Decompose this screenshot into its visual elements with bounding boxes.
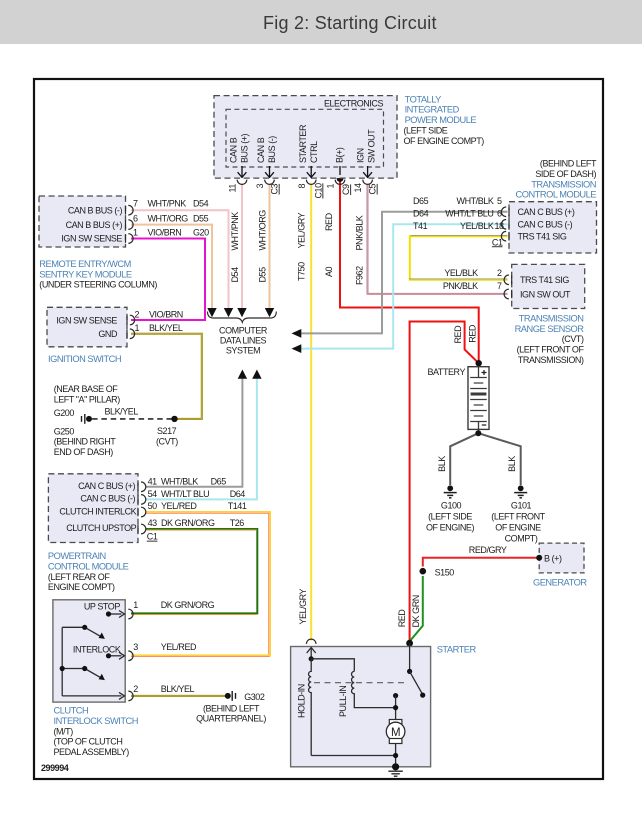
svg-text:D64: D64 bbox=[230, 489, 246, 499]
header bar bbox=[0, 0, 642, 44]
svg-text:CLUTCH INTERLCK: CLUTCH INTERLCK bbox=[59, 507, 136, 517]
svg-text:SENTRY KEY MODULE: SENTRY KEY MODULE bbox=[39, 269, 132, 279]
svg-text:YEL/BLK: YEL/BLK bbox=[460, 221, 494, 231]
svg-text:(LEFT FRONT: (LEFT FRONT bbox=[491, 512, 545, 522]
svg-text:3: 3 bbox=[255, 184, 265, 189]
svg-text:POWERTRAIN: POWERTRAIN bbox=[48, 551, 106, 561]
svg-text:CONTROL MODULE: CONTROL MODULE bbox=[516, 190, 597, 200]
starter motor box bbox=[291, 647, 431, 767]
svg-text:CAN C BUS (-): CAN C BUS (-) bbox=[80, 494, 135, 504]
svg-text:COMPT): COMPT) bbox=[505, 534, 538, 544]
svg-text:VIO/BRN: VIO/BRN bbox=[149, 309, 183, 319]
starter switch lever end dot bbox=[420, 693, 425, 698]
svg-text:(CVT): (CVT) bbox=[156, 436, 178, 446]
node battery negative dot bbox=[475, 430, 481, 436]
svg-text:T750: T750 bbox=[297, 262, 307, 281]
wire WHT/LT BLU D64 from TCM pin 6 to data lines arrow bbox=[301, 224, 508, 348]
svg-text:ELECTRONICS: ELECTRONICS bbox=[324, 98, 384, 108]
svg-text:CONTROL MODULE: CONTROL MODULE bbox=[48, 561, 129, 571]
node generator B(+) terminal dot bbox=[536, 555, 542, 561]
svg-text:OF ENGINE COMPT): OF ENGINE COMPT) bbox=[404, 136, 485, 146]
wire BLK/YEL dashed run from S217 to ground G200 bbox=[91, 418, 172, 420]
svg-text:WHT/PNK: WHT/PNK bbox=[148, 199, 187, 209]
starter switch lever bbox=[410, 671, 422, 693]
clutch switch contact dots bbox=[106, 611, 111, 616]
svg-text:IGN: IGN bbox=[356, 148, 366, 163]
svg-text:G20: G20 bbox=[193, 227, 209, 237]
wire RED from battery positive to starter junction bbox=[410, 322, 479, 641]
svg-text:RED: RED bbox=[397, 609, 407, 628]
clutch switch pin exit arrows bbox=[119, 611, 125, 700]
arrow down WHT/PNK into data lines bbox=[224, 308, 233, 317]
svg-text:WHT/LT BLU: WHT/LT BLU bbox=[445, 209, 493, 219]
wire starter internal top run bbox=[311, 659, 354, 672]
svg-text:C5: C5 bbox=[368, 183, 378, 194]
ground G200 symbol bbox=[82, 414, 85, 424]
svg-text:2: 2 bbox=[135, 309, 140, 319]
svg-text:BLK/YEL: BLK/YEL bbox=[161, 684, 195, 694]
wire BLK/YEL from clutch interlock switch pin 2 to ground G302 bbox=[131, 695, 226, 697]
svg-text:YEL/GRY: YEL/GRY bbox=[297, 212, 307, 248]
svg-text:G101: G101 bbox=[511, 501, 532, 511]
wire contact to motor bbox=[395, 696, 397, 720]
TIPM inner electronics box bbox=[226, 109, 384, 167]
svg-text:COMPUTER: COMPUTER bbox=[219, 326, 268, 336]
svg-text:IGNITION SWITCH: IGNITION SWITCH bbox=[48, 354, 121, 364]
svg-text:GENERATOR: GENERATOR bbox=[533, 577, 587, 587]
wire DK GRN/ORG T26 from PCM pin 43 to clutch interlock switch pin 1 bbox=[131, 529, 257, 613]
ignition switch pin connectors bbox=[127, 315, 135, 338]
wire WHT/BLK D65 from TCM pin 5 to data lines arrow bbox=[301, 212, 508, 334]
svg-text:3: 3 bbox=[133, 642, 138, 652]
svg-text:1: 1 bbox=[326, 184, 336, 189]
node battery positive junction dot bbox=[476, 360, 482, 366]
svg-text:TRS T41 SIG: TRS T41 SIG bbox=[520, 275, 569, 285]
node motor bottom junction bbox=[393, 753, 398, 758]
ignition switch box bbox=[47, 307, 127, 347]
svg-text:(LEFT SIDE: (LEFT SIDE bbox=[428, 512, 472, 522]
svg-text:6: 6 bbox=[133, 213, 138, 223]
svg-text:SIDE OF DASH): SIDE OF DASH) bbox=[535, 169, 596, 179]
svg-text:TRS T41 SIG: TRS T41 SIG bbox=[518, 231, 567, 241]
arrow up PCM WHT/LT BLU into data lines bbox=[252, 370, 261, 379]
svg-text:INTEGRATED: INTEGRATED bbox=[405, 105, 460, 115]
svg-text:RED: RED bbox=[453, 325, 463, 344]
wire DK GRN from splice S150 to starter junction bbox=[410, 576, 423, 641]
svg-text:G200: G200 bbox=[54, 408, 75, 418]
svg-text:(BEHIND LEFT: (BEHIND LEFT bbox=[540, 159, 597, 169]
svg-text:UP STOP: UP STOP bbox=[84, 601, 120, 611]
svg-text:2: 2 bbox=[497, 268, 502, 278]
svg-text:(CVT): (CVT) bbox=[562, 334, 584, 344]
motor M brushes and armature bbox=[389, 720, 402, 725]
svg-text:RANGE SENSOR: RANGE SENSOR bbox=[515, 324, 585, 334]
battery plus sign bbox=[482, 370, 487, 375]
svg-text:PNK/BLK: PNK/BLK bbox=[443, 281, 478, 291]
svg-text:CAN B BUS (+): CAN B BUS (+) bbox=[66, 220, 123, 230]
arrow down TIPM WHT/PNK into data lines bbox=[237, 308, 246, 317]
svg-text:T141: T141 bbox=[228, 501, 247, 511]
svg-text:YEL/BLK: YEL/BLK bbox=[444, 268, 478, 278]
wire BLK battery negative to ground G101 bbox=[478, 433, 520, 485]
svg-text:STARTER: STARTER bbox=[437, 645, 477, 655]
remote entry/WCM module box bbox=[39, 196, 126, 247]
svg-text:D55: D55 bbox=[258, 267, 268, 283]
svg-text:BLK: BLK bbox=[507, 456, 517, 472]
svg-text:5: 5 bbox=[497, 196, 502, 206]
wire RED/GRY from splice S150 to generator B(+) bbox=[423, 558, 537, 567]
svg-text:IGN SW SENSE: IGN SW SENSE bbox=[61, 234, 122, 244]
wire BLK battery negative to ground G100 bbox=[450, 433, 478, 485]
svg-text:WHT/BLK: WHT/BLK bbox=[161, 477, 198, 487]
arrow left WHT/LT BLU into data lines bbox=[292, 344, 302, 353]
svg-text:BATTERY: BATTERY bbox=[427, 367, 465, 377]
TCM pin connectors bbox=[501, 207, 509, 241]
svg-text:DK GRN: DK GRN bbox=[411, 595, 421, 627]
svg-text:C3: C3 bbox=[270, 183, 280, 194]
node pull-in to motor junction bbox=[393, 705, 398, 710]
svg-text:(LEFT SIDE: (LEFT SIDE bbox=[404, 126, 448, 136]
svg-text:LEFT "A" PILLAR): LEFT "A" PILLAR) bbox=[54, 394, 121, 404]
svg-text:7: 7 bbox=[497, 281, 502, 291]
svg-text:RED: RED bbox=[324, 212, 334, 231]
svg-text:G100: G100 bbox=[441, 501, 462, 511]
svg-text:(LEFT FRONT OF: (LEFT FRONT OF bbox=[517, 345, 585, 355]
svg-text:YEL/GRY: YEL/GRY bbox=[298, 588, 308, 624]
wire PNK/BLK gray stripe bbox=[367, 184, 508, 293]
svg-text:T41: T41 bbox=[413, 221, 428, 231]
ground G100 symbol bbox=[444, 485, 457, 497]
svg-text:BUS (+): BUS (+) bbox=[240, 133, 250, 163]
transmission range sensor box bbox=[512, 264, 585, 308]
svg-text:OF ENGINE: OF ENGINE bbox=[495, 523, 541, 533]
wire WHT/BLK D65 from PCM pin 41 up to data lines arrow bbox=[146, 379, 243, 487]
ground G302 symbol bbox=[225, 693, 231, 699]
TIPM connector hooks below box bbox=[237, 180, 372, 185]
svg-text:GND: GND bbox=[98, 329, 118, 339]
wire WHT/PNK D54 from TIPM pin 11 down to data-line arrow bbox=[241, 184, 243, 308]
svg-text:1: 1 bbox=[135, 323, 140, 333]
PCM pin connectors bbox=[138, 482, 146, 534]
svg-text:D65: D65 bbox=[211, 477, 227, 487]
svg-text:G250: G250 bbox=[54, 426, 75, 436]
wire PNK/BLK F962 from TIPM pin 14 to transmission range sensor pin 7 bbox=[368, 184, 508, 294]
svg-text:(LEFT REAR OF: (LEFT REAR OF bbox=[48, 572, 110, 582]
svg-text:G302: G302 bbox=[244, 692, 265, 702]
svg-text:QUARTERPANEL): QUARTERPANEL) bbox=[196, 714, 266, 724]
svg-text:DK GRN/ORG: DK GRN/ORG bbox=[161, 518, 215, 528]
svg-text:C1: C1 bbox=[492, 237, 503, 247]
arrow left WHT/BLK into data lines bbox=[292, 329, 302, 338]
svg-text:HOLD-IN: HOLD-IN bbox=[297, 684, 307, 718]
generator box bbox=[539, 543, 584, 573]
wire RED A0 from TIPM pin 1 to battery positive bbox=[340, 181, 479, 361]
svg-text:YEL/RED: YEL/RED bbox=[161, 501, 197, 511]
svg-text:REMOTE ENTRY/WCM: REMOTE ENTRY/WCM bbox=[39, 259, 131, 269]
wire hold-in bottom run bbox=[311, 755, 395, 757]
wire YEL/GRY T750 from TIPM pin 8 down to starter solenoid bbox=[310, 184, 312, 641]
svg-text:S150: S150 bbox=[435, 568, 455, 578]
svg-text:14: 14 bbox=[353, 183, 363, 193]
clutch switch internal circuit bbox=[62, 614, 121, 696]
svg-text:(BEHIND RIGHT: (BEHIND RIGHT bbox=[54, 437, 117, 447]
TCM module box bbox=[509, 202, 597, 253]
wire YEL/RED T141 from PCM pin 50 to clutch interlock switch pin 3 bbox=[131, 512, 270, 655]
starter switch feed line bbox=[409, 643, 411, 671]
remote module pin connectors bbox=[126, 205, 134, 243]
node starter B+ junction bbox=[406, 640, 413, 647]
svg-text:D54: D54 bbox=[230, 267, 240, 283]
node splice S150 bbox=[420, 568, 427, 575]
svg-text:S217: S217 bbox=[157, 426, 177, 436]
svg-text:CLUTCH: CLUTCH bbox=[54, 706, 89, 716]
arrow up PCM WHT/BLK into data lines bbox=[238, 370, 247, 379]
battery minus sign bbox=[482, 424, 487, 426]
svg-text:PULL-IN: PULL-IN bbox=[338, 686, 348, 717]
PCM module box bbox=[48, 474, 138, 543]
wire WHT/LT BLU D64 from PCM pin 54 up to data lines arrow bbox=[146, 379, 257, 500]
svg-text:END OF DASH): END OF DASH) bbox=[54, 447, 114, 457]
svg-text:A0: A0 bbox=[324, 266, 334, 277]
svg-text:WHT/LT BLU: WHT/LT BLU bbox=[161, 489, 209, 499]
starter input connector arc bbox=[306, 639, 316, 644]
hold-in coil bbox=[309, 659, 312, 756]
data lines brace bbox=[208, 312, 277, 323]
svg-text:6: 6 bbox=[497, 209, 502, 219]
pull-in coil bbox=[352, 671, 396, 707]
svg-text:WHT/ORG: WHT/ORG bbox=[148, 213, 189, 223]
svg-text:299994: 299994 bbox=[41, 763, 69, 773]
svg-text:B(+): B(+) bbox=[335, 147, 345, 163]
svg-text:54: 54 bbox=[148, 489, 158, 499]
svg-text:WHT/PNK: WHT/PNK bbox=[230, 212, 240, 251]
svg-text:ENGINE COMPT): ENGINE COMPT) bbox=[48, 582, 115, 592]
TIPM module outer box bbox=[214, 96, 397, 179]
svg-text:43: 43 bbox=[148, 518, 158, 528]
svg-text:INTERLOCK: INTERLOCK bbox=[73, 645, 121, 655]
frame border bbox=[34, 79, 603, 779]
svg-text:WHT/ORG: WHT/ORG bbox=[258, 210, 268, 251]
wire BLK/YEL core highlight bbox=[131, 334, 202, 419]
svg-text:DATA LINES: DATA LINES bbox=[220, 336, 267, 346]
svg-text:C9: C9 bbox=[341, 184, 351, 195]
svg-text:2: 2 bbox=[133, 684, 138, 694]
TRS pin connectors bbox=[504, 275, 512, 299]
svg-text:(M/T): (M/T) bbox=[54, 726, 74, 736]
svg-text:(TOP OF CLUTCH: (TOP OF CLUTCH bbox=[54, 737, 123, 747]
svg-text:POWER MODULE: POWER MODULE bbox=[405, 115, 477, 125]
svg-text:D64: D64 bbox=[413, 209, 429, 219]
wire BLK/YEL from ignition switch GND pin 1 to splice S217 bbox=[131, 334, 202, 419]
TIPM internal pin arrows down bbox=[242, 166, 368, 177]
svg-text:BUS (-): BUS (-) bbox=[267, 136, 277, 163]
svg-text:IGN SW SENSE: IGN SW SENSE bbox=[56, 315, 117, 325]
svg-text:RED: RED bbox=[467, 324, 477, 343]
svg-text:50: 50 bbox=[148, 501, 158, 511]
wire WHT/ORG D55 from TIPM pin 3 down to data-line arrow bbox=[269, 184, 271, 308]
arrow down TIPM WHT/ORG into data lines bbox=[265, 308, 274, 317]
svg-text:CAN C BUS (-): CAN C BUS (-) bbox=[518, 220, 573, 230]
node starter hold-in junction bbox=[309, 656, 314, 661]
svg-text:WHT/BLK: WHT/BLK bbox=[457, 196, 494, 206]
svg-text:1: 1 bbox=[133, 600, 138, 610]
battery symbol bbox=[468, 367, 489, 433]
svg-text:PEDAL ASSEMBLY): PEDAL ASSEMBLY) bbox=[54, 747, 130, 757]
svg-text:1: 1 bbox=[133, 227, 138, 237]
svg-text:OF ENGINE): OF ENGINE) bbox=[426, 523, 474, 533]
wire DK GRN/ORG orange trace bbox=[131, 530, 257, 615]
starter input arrow up bbox=[307, 648, 316, 659]
node TIPM B(+) pin dot bbox=[337, 175, 344, 182]
svg-text:C1: C1 bbox=[147, 532, 158, 542]
svg-text:D55: D55 bbox=[193, 213, 209, 223]
svg-text:PNK/BLK: PNK/BLK bbox=[355, 215, 365, 250]
svg-text:M: M bbox=[391, 727, 400, 739]
svg-text:BLK/YEL: BLK/YEL bbox=[105, 406, 139, 416]
svg-text:T26: T26 bbox=[230, 518, 245, 528]
wire YEL/RED T141 red under-stripe bbox=[131, 513, 269, 656]
svg-text:D65: D65 bbox=[413, 196, 429, 206]
svg-text:CTRL: CTRL bbox=[309, 141, 319, 163]
svg-text:VIO/BRN: VIO/BRN bbox=[148, 227, 182, 237]
arrow down WHT/ORG into data lines bbox=[207, 308, 216, 317]
svg-text:D54: D54 bbox=[193, 199, 209, 209]
svg-text:B (+): B (+) bbox=[544, 553, 562, 563]
svg-text:11: 11 bbox=[228, 184, 238, 193]
svg-text:DK GRN/ORG: DK GRN/ORG bbox=[161, 600, 215, 610]
svg-text:TRANSMISSION: TRANSMISSION bbox=[531, 179, 596, 189]
svg-text:SW OUT: SW OUT bbox=[367, 129, 377, 163]
svg-text:(NEAR BASE OF: (NEAR BASE OF bbox=[54, 384, 119, 394]
svg-text:CAN B: CAN B bbox=[256, 137, 266, 163]
svg-text:(BEHIND LEFT: (BEHIND LEFT bbox=[203, 703, 260, 713]
svg-text:(UNDER STEERING COLUMN): (UNDER STEERING COLUMN) bbox=[39, 280, 157, 290]
wire YEL/BLK black stripe bbox=[409, 235, 508, 279]
svg-text:7: 7 bbox=[133, 199, 138, 209]
svg-text:BLK/YEL: BLK/YEL bbox=[149, 323, 183, 333]
svg-text:YEL/RED: YEL/RED bbox=[161, 642, 197, 652]
svg-text:STARTER: STARTER bbox=[298, 124, 308, 163]
svg-text:C10: C10 bbox=[313, 183, 323, 199]
wire BLK/YEL core highlight 2 bbox=[131, 695, 226, 697]
svg-text:TRANSMISSION: TRANSMISSION bbox=[519, 313, 584, 323]
svg-text:CAN C BUS (+): CAN C BUS (+) bbox=[78, 481, 135, 491]
wire WHT/ORG D55 from remote entry module pin 6 to data-line arrow bbox=[131, 225, 212, 308]
starter switch pivot dot bbox=[407, 669, 412, 674]
svg-text:RED/GRY: RED/GRY bbox=[469, 545, 507, 555]
svg-text:CAN B BUS (-): CAN B BUS (-) bbox=[68, 205, 123, 215]
wire VIO/BRN G20 from remote entry module pin 1 to ignition switch pin 2 bbox=[131, 239, 205, 321]
clutch switch pin connector hooks bbox=[128, 609, 133, 700]
svg-text:IGN SW OUT: IGN SW OUT bbox=[520, 289, 571, 299]
svg-text:F962: F962 bbox=[355, 266, 365, 285]
wire motor to ground run bbox=[395, 744, 397, 767]
svg-text:41: 41 bbox=[148, 477, 158, 487]
wire WHT/PNK D54 from remote entry module pin 7 to data-line arrow bbox=[131, 210, 229, 308]
node splice S217 bbox=[171, 416, 177, 422]
clutch switch lever arrowheads bbox=[99, 633, 105, 639]
svg-text:TOTALLY: TOTALLY bbox=[405, 94, 442, 104]
solenoid linkage dashed line bbox=[314, 682, 407, 684]
svg-text:BLK: BLK bbox=[437, 456, 447, 472]
wire YEL/BLK T41 from TCM pin 18 to transmission range sensor pin 2 bbox=[410, 236, 508, 280]
svg-text:18: 18 bbox=[494, 221, 504, 231]
svg-text:CAN C BUS (+): CAN C BUS (+) bbox=[518, 207, 575, 217]
svg-text:INTERLOCK SWITCH: INTERLOCK SWITCH bbox=[54, 716, 138, 726]
ground starter case bbox=[392, 763, 399, 770]
svg-text:8: 8 bbox=[297, 184, 307, 189]
svg-text:SYSTEM: SYSTEM bbox=[226, 346, 260, 356]
svg-text:TRANSMISSION): TRANSMISSION) bbox=[518, 355, 584, 365]
svg-text:Fig 2: Starting Circuit: Fig 2: Starting Circuit bbox=[263, 13, 437, 33]
clutch interlock switch box bbox=[53, 600, 125, 702]
svg-text:CLUTCH UPSTOP: CLUTCH UPSTOP bbox=[66, 523, 136, 533]
svg-text:CAN B: CAN B bbox=[229, 137, 239, 163]
starter switch contact dot bbox=[393, 693, 398, 698]
ground G101 symbol bbox=[514, 485, 527, 497]
